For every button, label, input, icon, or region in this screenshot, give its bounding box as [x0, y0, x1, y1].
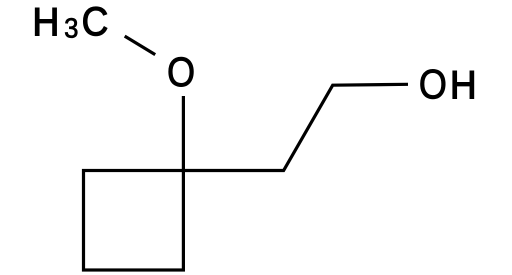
label subscript 3 of H3C	[65, 18, 77, 38]
label H of OH (hydroxyl)	[453, 71, 474, 98]
label O of OH (hydroxyl)	[421, 69, 446, 98]
label C of H3C	[83, 7, 106, 36]
cyclobutane ring C1	[84, 171, 184, 271]
label O (methoxy oxygen)	[169, 57, 194, 86]
wire: vertical bond O-C1 (methoxy oxygen down to quaternary ring carbon)	[182, 96, 185, 171]
wire: bond H3C-O (methyl to methoxy oxygen)	[125, 36, 156, 55]
label H of H3C (methyl group)	[35, 8, 56, 35]
wire: ethanol chain bonds C1-CH2-CH2-OH	[183, 84, 408, 170]
